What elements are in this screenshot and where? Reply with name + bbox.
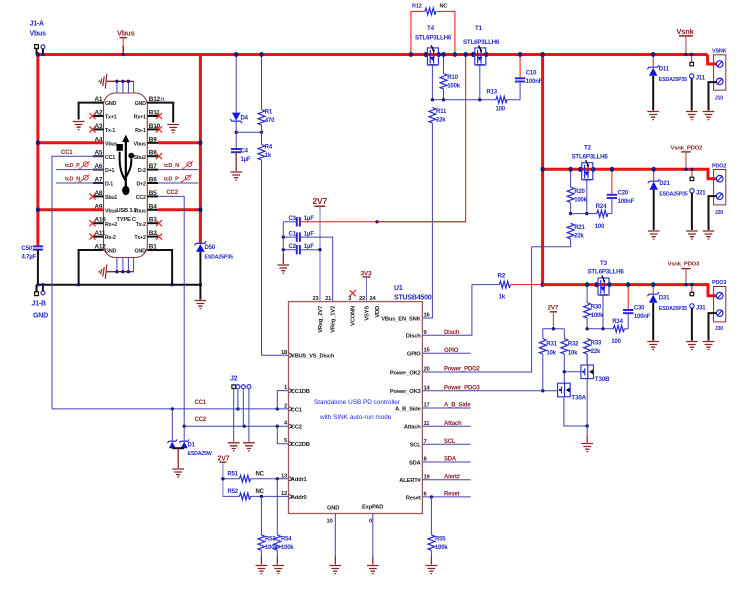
net Power_PDO3 wire [422,385,551,391]
transistor T3 STL6P3LLH6 [588,260,625,329]
resistor R52 NC [223,489,289,500]
power flag Vbus [117,29,135,55]
power flag 2V7 at R31/R32 [548,304,559,329]
ic U1 bottom pins [327,505,384,525]
wire PDO3 red row [543,285,717,296]
svg-text:with SINK auto-run mode: with SINK auto-run mode [319,414,392,421]
svg-text:tcD_N: tcD_N [65,177,80,183]
svg-text:B6: B6 [149,177,157,184]
pin A7 [93,177,113,188]
svg-text:GND: GND [105,101,117,107]
svg-text:T2: T2 [584,145,592,152]
capacitor C50 4.7uF [22,246,44,285]
svg-text:R31: R31 [546,341,557,347]
svg-text:Reset: Reset [406,495,421,501]
wire VBUS top bus [38,53,708,56]
connector J2 header [230,376,251,442]
svg-text:1µF: 1µF [304,231,314,237]
svg-text:Sbu2: Sbu2 [134,155,146,161]
svg-text:D+2: D+2 [137,182,147,188]
svg-text:CC1: CC1 [61,150,73,156]
ic U1 body [289,285,432,514]
ground below GND pin [330,566,342,574]
wire A12 GND to ground bus [79,250,104,285]
svg-text:GPIO: GPIO [407,352,421,358]
svg-text:tcD_P: tcD_P [65,163,80,169]
resistor R13 100 [487,90,507,113]
svg-text:100nF: 100nF [634,314,651,320]
diode D50 ESDA25P35 [195,241,233,299]
svg-text:CC1: CC1 [195,400,207,406]
svg-text:C30: C30 [634,306,645,312]
connector J1 USB 3.1 TYPE C body [104,93,148,258]
svg-text:R10: R10 [447,75,458,81]
svg-text:B7: B7 [149,163,157,170]
diode D31 ESDA25P35 [647,285,687,341]
wire red vertical right of USB connector [199,55,202,244]
svg-text:J1-B: J1-B [32,301,47,308]
svg-text:R11: R11 [436,109,447,115]
ic U1 top pins [312,296,381,333]
net GPIO stub [422,348,470,354]
pin B11 [134,110,162,121]
svg-text:R4: R4 [265,145,273,151]
svg-text:STL6P3LLH6: STL6P3LLH6 [415,35,452,42]
ground below B12 [167,125,179,133]
ground below J20 pin2 [703,231,715,239]
svg-text:ExpPAD: ExpPAD [362,505,383,511]
svg-text:2V7: 2V7 [548,304,559,311]
resistor R2 1k [472,273,543,301]
wire PDO2 red row [543,169,717,178]
capacitor C4 1uF [231,132,251,171]
resistor R10 100k [440,55,461,100]
pin B3 [136,217,162,228]
wire right VBUS vertical rail [541,55,544,285]
capacitor C1 1uF [283,231,332,301]
wire VBUS_VS_Disch to pin 18 [262,354,289,356]
net CC1 wire from A5 [52,150,104,409]
svg-text:100k: 100k [435,545,448,551]
ground below D1 [172,469,184,477]
svg-text:100: 100 [595,224,605,230]
svg-text:R1: R1 [265,110,273,116]
svg-text:D+1: D+1 [105,168,115,174]
connector J10 VSNK [708,49,727,111]
net tcD_N wire on B7 [158,161,198,169]
svg-text:C3: C3 [289,216,297,222]
svg-text:18: 18 [281,350,288,356]
svg-text:R34: R34 [612,319,623,325]
net Power_PDO2 wire [422,247,531,373]
svg-text:CC2: CC2 [167,190,179,196]
svg-text:Sbu1: Sbu1 [105,195,117,201]
svg-text:Vsnk_PDO2: Vsnk_PDO2 [671,145,704,151]
svg-text:ALERT#: ALERT# [399,478,421,484]
wire D4 node to R1/R4 node [236,131,261,133]
svg-text:GND: GND [33,313,48,320]
svg-text:SDA: SDA [409,460,422,466]
pin A4 [93,136,117,147]
wire B12 GND to ground [147,103,173,123]
connector J1-A [30,21,47,55]
svg-text:B5: B5 [149,190,157,197]
svg-text:VDD: VDD [375,306,381,318]
shield ground bottom [99,258,134,279]
resistor R55 100k [428,497,448,565]
wire gate node row [432,99,520,101]
svg-text:1µF: 1µF [241,157,251,163]
svg-text:GND: GND [327,506,339,512]
svg-text:R51: R51 [228,472,239,478]
resistor R53 100k [258,496,278,564]
svg-text:R54: R54 [281,537,292,543]
svg-text:22k: 22k [574,234,584,240]
svg-text:100k: 100k [574,197,587,203]
svg-text:Tx+1: Tx+1 [105,115,117,121]
svg-text:R52: R52 [228,489,239,495]
svg-text:1µF: 1µF [304,244,314,250]
ground below caps [278,265,290,273]
resistor R33 22k [584,339,602,365]
power flag 2V7 at R51 [218,455,230,496]
svg-text:24: 24 [369,296,376,302]
svg-text:B9: B9 [149,136,157,143]
wire CC2DB pin 5 elbow [277,426,288,444]
pin A12 [93,244,117,255]
transistor T4 STL6P3LLH6 [415,25,452,100]
wire A1 GND to ground [79,103,104,120]
svg-text:SCL: SCL [410,443,422,449]
svg-text:Rx+1: Rx+1 [134,115,146,121]
ground below R54 [273,566,285,574]
svg-text:NC: NC [440,4,448,10]
svg-text:VCONN: VCONN [351,306,357,326]
svg-text:ESDA25P35: ESDA25P35 [205,255,233,261]
ground below D50 [195,301,207,309]
svg-text:R2: R2 [498,273,506,280]
svg-text:VReg_2V7: VReg_2V7 [318,306,324,333]
svg-text:Vbus: Vbus [117,29,135,38]
net tcD_N wire on A7 [56,175,103,183]
svg-text:A5: A5 [95,150,103,157]
svg-text:T4: T4 [427,25,435,32]
svg-text:tcD_P: tcD_P [164,177,179,183]
resistor R32 10k [561,329,579,372]
svg-text:A3: A3 [95,123,103,130]
svg-text:0: 0 [369,519,372,525]
ground below C4 [230,172,242,180]
net tcD_P wire on A6 [56,161,103,169]
resistor R1 470 [258,55,275,133]
wire VDD red rail to C3 [300,221,466,223]
svg-text:10: 10 [327,519,333,525]
svg-text:PDO2: PDO2 [712,164,726,170]
ground below R55 [426,566,438,574]
svg-text:CC2DB: CC2DB [291,442,310,448]
svg-text:16: 16 [424,313,431,319]
svg-text:100: 100 [496,107,506,113]
wire B4 Vbus red [158,208,200,211]
svg-text:VSNK: VSNK [712,49,727,55]
pin B7 [138,163,158,174]
ground below J21 [686,231,698,239]
power flag Vsnk_PDO2 [671,145,704,169]
net A_B_Side stub [422,403,471,409]
pin A5 [93,150,115,161]
svg-text:Vbus: Vbus [30,31,47,38]
svg-text:Power_OK2: Power_OK2 [390,370,421,376]
svg-text:D21: D21 [659,181,670,187]
connector J1-B [32,285,49,320]
svg-text:B4: B4 [149,203,157,210]
svg-text:Power_OK3: Power_OK3 [390,389,422,395]
pin B6 [137,177,158,188]
pin A3 [89,123,115,134]
svg-text:Rx-2: Rx-2 [105,235,116,241]
svg-text:VBus_EN_SNK: VBus_EN_SNK [381,316,421,322]
wire T30 common to ground [586,426,588,436]
svg-text:Disch: Disch [406,334,421,340]
svg-text:J20: J20 [715,210,723,216]
svg-text:Tx-2: Tx-2 [136,222,146,228]
resistor R31 10k [539,329,557,391]
diode D11 ESDA25P35 [647,55,687,111]
svg-text:ESDA25P35: ESDA25P35 [659,192,687,198]
net Alert# stub [422,474,470,480]
svg-text:C1: C1 [289,231,297,237]
pin A2 [89,110,116,121]
svg-text:J2: J2 [230,376,238,383]
svg-text:D1: D1 [188,443,196,449]
svg-text:100: 100 [611,339,621,345]
svg-text:Vbus: Vbus [134,208,146,214]
svg-text:T1: T1 [475,25,483,32]
test point J11 [690,55,706,111]
svg-text:STL6P3LLH6: STL6P3LLH6 [572,154,609,161]
svg-text:R13: R13 [487,90,498,96]
wire ExpPAD pin 0 [372,514,374,565]
svg-text:D50: D50 [205,245,216,251]
svg-text:STUSB4500: STUSB4500 [394,295,432,302]
svg-text:10k: 10k [546,350,556,356]
wire left VBUS vertical rail [36,55,39,247]
wire T2 gate node [571,213,597,215]
svg-text:T3: T3 [600,260,608,267]
ground below ExpPAD [367,566,379,574]
ic U1 right pin names [381,313,430,502]
svg-text:CC2: CC2 [195,417,207,423]
svg-text:R32: R32 [568,341,579,347]
resistor R12 NC loop [411,4,455,55]
test point J21 [690,169,707,230]
svg-text:NC: NC [256,472,265,478]
wire A9 Vbus red [38,208,104,211]
svg-text:22: 22 [359,296,365,302]
svg-text:Rx-1: Rx-1 [135,128,146,134]
svg-text:CC1DB: CC1DB [291,389,310,395]
ic U1 left pin names [281,350,335,501]
svg-text:PDO3: PDO3 [712,280,726,286]
icon USB trident [117,135,135,195]
svg-text:C50: C50 [22,246,33,252]
capacitor C2 1uF [283,244,320,255]
svg-text:D4: D4 [241,116,249,122]
svg-text:C10: C10 [526,71,537,77]
svg-text:23: 23 [312,296,319,302]
svg-text:21: 21 [325,296,332,302]
svg-text:R20: R20 [574,189,585,195]
pin B5 [136,190,158,201]
net CC1 wire to pin 2 [52,400,289,409]
svg-text:1k: 1k [499,294,506,301]
svg-text:R12: R12 [412,4,422,10]
svg-text:2V7: 2V7 [313,196,328,206]
svg-text:D-1: D-1 [105,182,113,188]
svg-text:VReg_1V2: VReg_1V2 [331,306,337,333]
connector J20 PDO2 [709,164,727,231]
transistor T30A [551,383,587,426]
pin A8 [89,190,117,201]
pin B2 [134,230,162,241]
svg-text:J31: J31 [696,306,706,312]
svg-text:470: 470 [265,118,275,124]
svg-text:C2: C2 [289,244,297,250]
ground below R53 [256,566,268,574]
resistor R4 1k [258,132,273,355]
svg-text:CC1: CC1 [291,407,303,413]
svg-text:D31: D31 [659,296,670,302]
net tcD_P wire on B6 [158,175,198,183]
svg-text:A6: A6 [95,163,103,170]
pin A11 [89,230,116,241]
wire caps to ground [282,222,284,254]
svg-text:Tx+2: Tx+2 [134,235,146,241]
net Attach stub [422,421,470,427]
svg-text:R55: R55 [435,537,446,543]
svg-text:C20: C20 [618,190,629,196]
pin B12 [135,96,161,107]
pin B1 [135,244,158,255]
ground below J2 pin1 [228,443,240,451]
wire B9 Vbus red [158,141,200,144]
net SDA stub [422,457,470,463]
shield ground top [99,74,134,93]
svg-text:STL6P3LLH6: STL6P3LLH6 [588,269,625,276]
ground below D31 [647,342,659,350]
svg-text:100k: 100k [281,545,294,551]
svg-text:Vbus: Vbus [105,141,117,147]
svg-text:tcD_N: tcD_N [164,163,179,169]
ground below J31 [686,342,698,350]
net Reset stub [422,492,470,498]
ground below D11 [647,112,659,120]
diode D21 ESDA25P35 [648,169,688,230]
ground below A1 [73,122,85,130]
svg-text:Addr1: Addr1 [291,477,308,483]
resistor R54 100k [274,479,295,565]
net Disch wire to R2 [422,285,472,336]
svg-text:CC2: CC2 [136,195,146,201]
pin A9 [93,203,117,214]
svg-text:A2: A2 [95,110,103,117]
power flag 3V3 [361,270,373,301]
resistor R34 100 [611,319,628,345]
no-connect X on VCONN pin 3 [350,290,356,296]
svg-text:GND: GND [135,249,147,255]
svg-text:ESDA25P35: ESDA25P35 [659,306,687,312]
ground below D21 [648,231,660,239]
resistor R24 100 [595,204,612,230]
svg-text:1µF: 1µF [304,216,314,222]
resistor R20 100k [567,169,587,213]
svg-text:J11: J11 [696,76,706,82]
svg-text:T30B: T30B [595,376,610,383]
svg-text:22k: 22k [436,118,446,124]
transistor T2 STL6P3LLH6 [572,145,609,214]
svg-text:100k: 100k [591,313,604,319]
ground below J10 pin2 [703,112,715,120]
svg-text:ESDA25W: ESDA25W [188,451,212,457]
ground below T30 [581,444,593,452]
svg-text:Addr0: Addr0 [291,495,307,501]
node Vbus junction J1-A [36,52,40,57]
power flag Vsnk_PDO3 [668,262,701,285]
svg-text:T30A: T30A [571,395,586,402]
svg-text:Standalone USB PD controller: Standalone USB PD controller [314,399,401,406]
pin B9 [134,136,158,147]
wire VDD to VBUS [377,55,466,222]
svg-text:U1: U1 [394,285,403,292]
svg-text:100k: 100k [447,84,460,90]
svg-text:A_B_Side: A_B_Side [395,406,421,412]
svg-text:VSYS: VSYS [365,306,371,321]
pin A1 [93,96,117,107]
svg-text:Vbus: Vbus [105,208,117,214]
svg-text:CC1: CC1 [105,155,115,161]
svg-text:NC: NC [256,489,265,495]
svg-text:D11: D11 [659,67,670,73]
svg-text:R33: R33 [591,340,602,346]
wire B1 GND to ground bus [147,250,172,285]
svg-text:Rx+2: Rx+2 [105,222,117,228]
resistor R51 NC [223,472,289,483]
svg-text:VBUS_VS_Disch: VBUS_VS_Disch [291,354,335,360]
svg-text:100nF: 100nF [618,199,635,205]
svg-text:Vsnk_PDO3: Vsnk_PDO3 [668,262,701,268]
svg-text:A7: A7 [95,177,103,184]
svg-text:J30: J30 [715,326,723,332]
svg-text:22k: 22k [591,349,601,355]
pin B10 [135,123,162,134]
test point J31 [690,285,707,341]
svg-text:C4: C4 [241,149,249,155]
svg-text:J1: J1 [160,97,165,102]
svg-text:GND: GND [135,101,147,107]
svg-text:100nF: 100nF [526,79,543,85]
wire R31/R32 top node [543,328,565,330]
wire GND pin 10 [334,514,336,565]
svg-text:D-2: D-2 [138,168,146,174]
svg-text:4.7µF: 4.7µF [22,255,37,261]
svg-text:Attach: Attach [404,425,421,431]
resistor R11 22k [422,107,447,318]
svg-text:GND: GND [105,249,117,255]
svg-text:TYPE C: TYPE C [117,217,136,223]
pin B4 [134,203,158,214]
svg-text:ESDA25P35: ESDA25P35 [659,77,687,83]
wire A4 Vbus red [38,141,104,144]
